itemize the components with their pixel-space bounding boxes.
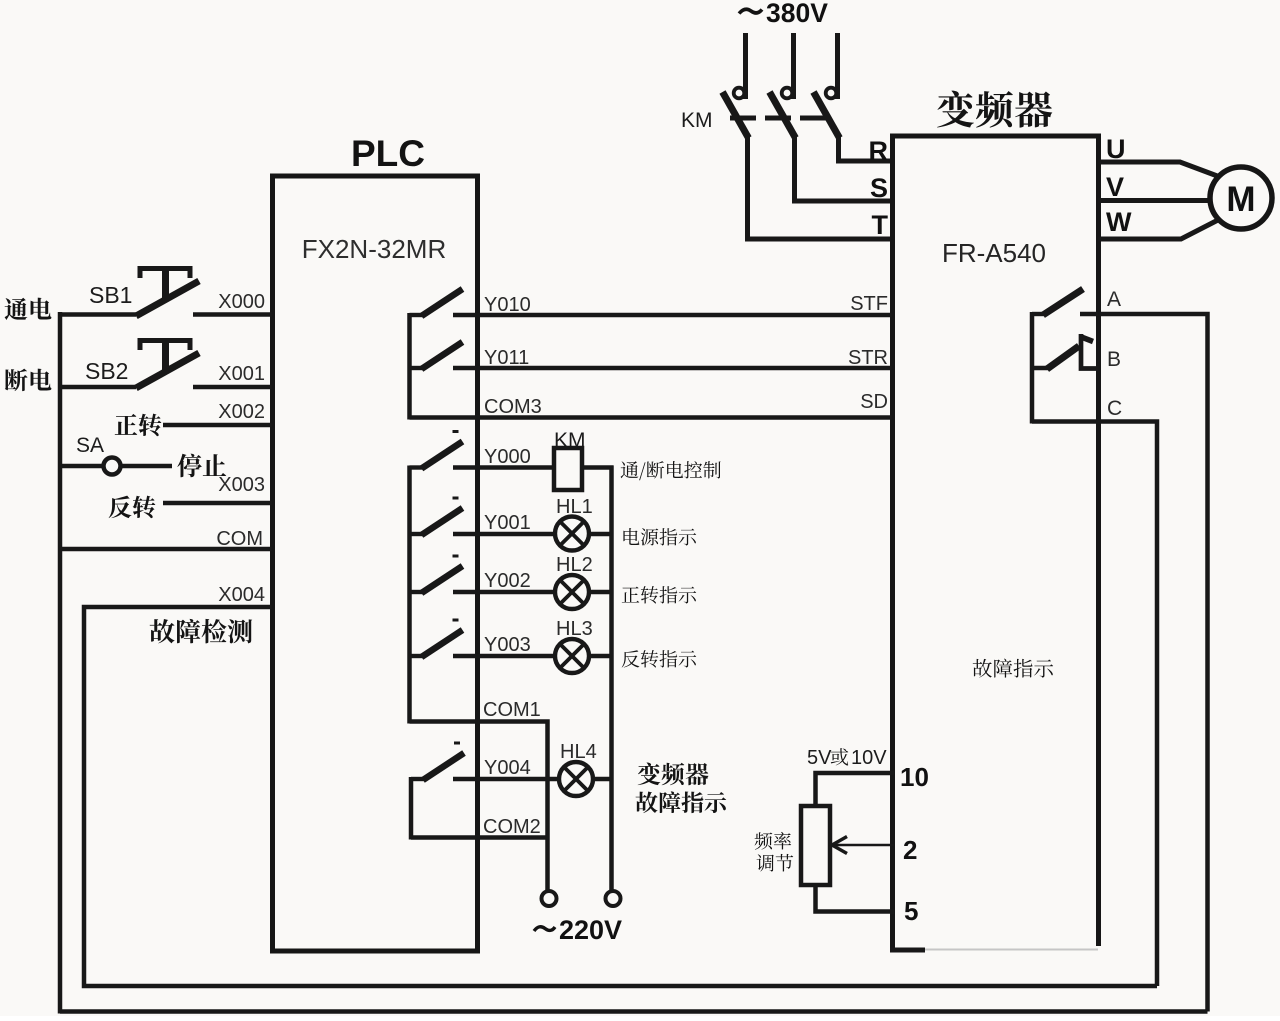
contactor KM main contacts (3 poles) [723,92,749,138]
wire pot bottom to terminal 5 [816,883,895,912]
fault contact blade B (NC) [1032,366,1049,370]
svg-text:KM: KM [681,109,713,132]
wire COM2 row [411,835,548,839]
svg-text:Y003: Y003 [484,634,531,656]
label 断电 [5,369,52,392]
svg-text:SB1: SB1 [89,282,132,308]
wire bottom common return (A to left bus) [60,1009,1208,1014]
wire HL4 to lamp bus [593,777,611,781]
relay contact Y002 [410,590,424,594]
svg-text:10: 10 [900,762,929,792]
relay contact Y003 [410,654,424,658]
svg-text:Y002: Y002 [484,570,531,592]
terminal circle left (220V) [542,891,557,906]
svg-text:V: V [1106,172,1124,202]
label 频率调节 [755,832,792,850]
wire supply phase L2 drop [791,33,796,99]
svg-text:W: W [1106,207,1132,237]
relay contact Y000 [410,465,424,469]
wire Y011 to STR [477,366,892,370]
relay contact Y004 [411,777,425,781]
label 变频器故障指示 [638,762,709,785]
wire Y000 to KM coil [477,465,556,469]
svg-text:X002: X002 [218,401,265,423]
motor M [1210,167,1272,229]
wire A to bottom return [1099,314,1208,1012]
output group bus (Y000..Y003/COM1) [407,466,412,724]
label 通电 [5,298,52,320]
svg-text:Y010: Y010 [484,294,531,316]
label 停止 [177,454,226,478]
PLC box [273,176,478,951]
svg-text:COM1: COM1 [483,699,541,721]
label 反转 [109,496,156,519]
svg-text:FX2N-32MR: FX2N-32MR [302,234,446,264]
svg-text:R: R [869,136,889,166]
wire V to motor [1099,198,1212,203]
wire terminal 10 to pot top [816,773,895,808]
relay contact Y011 [410,366,424,370]
svg-text:STR: STR [848,347,888,369]
inverter box bottom edge (faded) [890,948,925,953]
wire COM1 down to 220V terminal [410,722,548,892]
wire U to motor [1099,162,1221,177]
lamp HL2 [555,575,589,609]
label 故障指示 (inverter) [973,659,1053,678]
svg-text:Y001: Y001 [484,512,531,534]
label 变频器 (inverter title) [937,91,1052,128]
lamp bus vertical [609,466,614,892]
wire COM3 to SD [410,415,893,419]
svg-text:PLC: PLC [351,133,425,174]
svg-text:STF: STF [850,293,888,315]
svg-text:5: 5 [904,896,918,926]
relay contact Y010 [410,313,424,317]
wire 正转 to X002 [163,423,272,427]
svg-text:COM2: COM2 [483,816,541,838]
wire Y010 to STF [477,313,892,317]
svg-text:HL2: HL2 [556,554,593,576]
wire KM pole2 to S [795,135,895,201]
label 反转指示 [622,650,696,668]
wire KM pole1 to T [748,135,895,239]
wire HL2 to bus [589,590,611,594]
svg-text:S: S [870,173,888,203]
svg-text:FR-A540: FR-A540 [942,238,1046,268]
svg-text:B: B [1107,348,1121,371]
svg-text:Y011: Y011 [484,347,529,369]
wire X004 fault-detect loop (left) [84,607,1157,986]
wire KM coil to lamp bus [582,465,614,469]
label ~380V supply [739,9,762,13]
wire Y001 to HL1 [477,532,557,536]
svg-text:M: M [1226,180,1255,219]
svg-text:X003: X003 [218,474,265,496]
svg-text:10V: 10V [851,747,887,769]
wire Y004 to HL4 [477,777,560,781]
inverter box FR-A540 [893,136,1099,950]
wire HL3 to bus [589,654,611,658]
wire supply phase L3 drop [835,33,840,99]
svg-text:X001: X001 [218,363,265,385]
label 故障检测 [150,619,253,644]
wire SB2 to X001 [193,385,272,389]
wire SB1 to X000 [193,312,272,316]
svg-text:HL3: HL3 [556,618,593,640]
label 电源指示 [623,528,696,545]
left common bus [58,312,63,1014]
svg-text:SB2: SB2 [85,358,128,384]
lamp HL4 [559,762,593,796]
svg-text:C: C [1107,397,1122,420]
wire Y002 to HL2 [477,590,557,594]
pushbutton SB1 (NO) [60,312,136,316]
lamp HL1 [555,517,589,551]
wire W to motor [1099,220,1219,239]
label 通/断电控制 [621,461,721,480]
wire COM row [60,547,272,551]
potentiometer (频率调节) [801,806,830,885]
wire Y003 to HL3 [477,654,557,658]
svg-text:380V: 380V [766,0,828,28]
svg-text:T: T [872,210,889,240]
label 正转 [115,414,162,437]
svg-text:COM3: COM3 [484,396,542,418]
svg-text:A: A [1107,288,1121,311]
fault contact blade A (NO) [1032,312,1046,316]
svg-text:X004: X004 [218,584,265,606]
relay contact Y001 [410,532,424,536]
fault contact bus [1030,312,1035,424]
terminal circle right (220V) [606,891,621,906]
wire supply phase L1 drop [743,33,748,99]
svg-text:220V: 220V [559,915,622,945]
KM mechanical linkage (dashed) [730,116,826,121]
svg-text:2: 2 [903,835,917,865]
svg-text:X000: X000 [218,291,265,313]
output group bus (Y010/Y011/COM3) [407,313,412,420]
wire KM pole3 to R [839,135,895,161]
label ~220V [534,927,555,931]
svg-text:5V: 5V [807,747,832,769]
svg-text:SA: SA [76,434,104,457]
pot wiper arrow from terminal 2 [834,844,894,847]
wire C row to fault-detect loop [1032,422,1157,987]
svg-text:COM: COM [216,528,263,550]
contactor coil KM [554,448,582,490]
pushbutton SB2 (NO) [60,385,136,389]
wire HL1 to bus [589,532,611,536]
output group bus (Y004/COM2) [409,777,414,840]
lamp HL3 [555,639,589,673]
label 正转指示 [622,586,696,604]
svg-text:Y004: Y004 [484,757,531,779]
svg-text:SD: SD [860,391,888,413]
wire 反转 to X003 [163,501,272,505]
svg-text:Y000: Y000 [484,446,531,468]
svg-text:HL4: HL4 [560,741,597,763]
